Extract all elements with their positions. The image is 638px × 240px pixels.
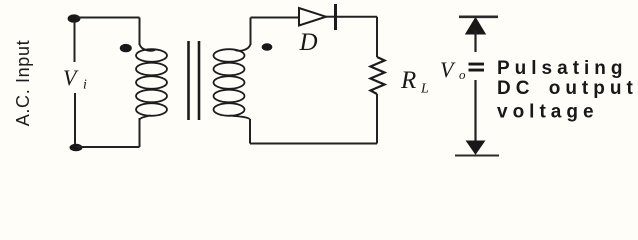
terminal dot top-left <box>68 14 81 22</box>
polarity dot secondary <box>262 43 273 51</box>
wire secondary bottom lead <box>249 119 251 144</box>
label Vo= <box>440 57 484 82</box>
label A.C. Input <box>13 40 33 127</box>
svg-text:Pulsating: Pulsating <box>497 58 628 79</box>
wire secondary top lead <box>250 18 252 46</box>
wire diode cathode to corner <box>337 16 377 18</box>
wire left vertical upper stub <box>74 21 76 62</box>
svg-text:V: V <box>440 57 456 82</box>
svg-text:DC output: DC output <box>497 78 638 99</box>
wire bottom horizontal secondary side <box>250 143 377 145</box>
wire top horizontal secondary to diode <box>251 17 300 19</box>
svg-text:o: o <box>459 67 466 82</box>
wire right vertical top <box>376 17 378 57</box>
label D <box>299 29 318 56</box>
wire left vertical lower stub <box>74 93 76 145</box>
output arrow bottom bar <box>455 155 499 157</box>
wire bottom horizontal primary side <box>77 146 140 148</box>
label RL <box>400 67 429 97</box>
diode D <box>299 4 336 30</box>
wire right vertical bottom <box>376 94 378 144</box>
transformer core <box>189 41 200 120</box>
output arrow lower line and down head <box>467 80 485 154</box>
svg-text:D: D <box>299 29 318 56</box>
polarity dot primary <box>120 44 132 52</box>
wire top horizontal primary side <box>76 17 140 19</box>
wire primary bottom lead <box>139 118 141 147</box>
svg-text:voltage: voltage <box>497 102 599 123</box>
transformer T1 primary winding <box>136 44 167 120</box>
resistor RL <box>371 57 385 94</box>
svg-text:L: L <box>420 82 429 97</box>
label Pulsating DC output voltage <box>497 58 638 123</box>
output arrow up head and upper line <box>466 18 486 52</box>
svg-text:R: R <box>400 67 416 94</box>
svg-text:V: V <box>63 65 79 90</box>
wire primary top lead <box>139 18 141 46</box>
terminal dot bottom-left <box>70 144 83 152</box>
transformer T1 secondary winding <box>214 44 251 120</box>
output arrow top bar <box>459 15 498 18</box>
svg-text:i: i <box>83 78 87 93</box>
source Vi label <box>63 65 87 93</box>
svg-text:A.C. Input: A.C. Input <box>13 40 33 127</box>
